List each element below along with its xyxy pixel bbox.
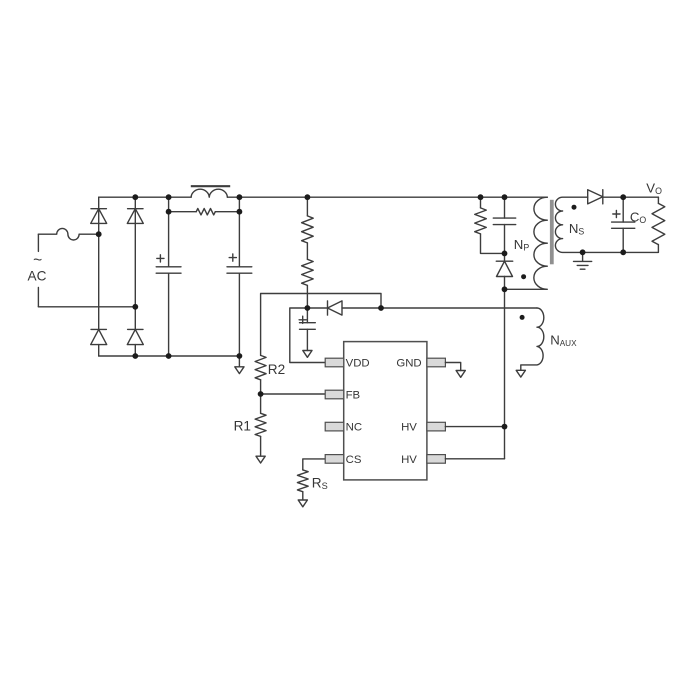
- wire bottom rail: [99, 355, 240, 357]
- wire FB: [261, 393, 326, 395]
- svg-text:FB: FB: [346, 390, 361, 402]
- inductor L1: [191, 186, 230, 197]
- transformer winding NS: [555, 197, 658, 252]
- svg-text:NAUX: NAUX: [550, 333, 577, 349]
- diode D2: [91, 329, 107, 344]
- wire bridge column 1: [98, 197, 100, 356]
- diode Dvdd: [328, 301, 343, 315]
- svg-text:R1: R1: [234, 418, 251, 433]
- wire CS: [303, 459, 325, 470]
- resistor R2: [255, 355, 285, 379]
- svg-text:NC: NC: [346, 422, 362, 434]
- capacitor CO: [612, 197, 647, 252]
- resistor RS: [297, 470, 327, 492]
- AC source: [28, 234, 47, 307]
- transformer winding NP: [505, 197, 548, 289]
- wire top rail: [99, 196, 548, 198]
- ground (Cvdd): [303, 351, 312, 358]
- capacitor C1: [156, 197, 181, 356]
- wire startup tap: [306, 197, 308, 308]
- svg-text:CO: CO: [630, 210, 647, 226]
- ground (RS): [298, 492, 307, 507]
- svg-text:AC: AC: [28, 268, 47, 283]
- transformer winding NAUX: [521, 308, 577, 370]
- resistor Rdamp: [196, 209, 215, 215]
- resistor Rst1: [302, 216, 314, 243]
- wire VDD supply: [290, 308, 325, 363]
- resistor R1: [234, 413, 267, 436]
- svg-text:R2: R2: [268, 362, 285, 377]
- wire diode to aux: [342, 307, 537, 309]
- wire HV2: [445, 458, 504, 460]
- diode Dout: [588, 190, 603, 204]
- resistor Rload: [652, 197, 665, 252]
- resistor Rsn: [475, 197, 505, 253]
- wire GND pin: [445, 363, 460, 371]
- capacitor Cvdd: [299, 308, 315, 351]
- svg-text:HV: HV: [401, 422, 417, 434]
- capacitor C2: [227, 197, 252, 356]
- wire drain: [504, 289, 506, 459]
- svg-text:~: ~: [33, 252, 42, 269]
- diode Dsn: [496, 253, 512, 289]
- ground (R1): [256, 436, 265, 463]
- wire damping rail: [169, 211, 240, 213]
- capacitor Csn: [493, 197, 515, 253]
- wire output: [603, 196, 659, 198]
- svg-text:VDD: VDD: [346, 358, 370, 370]
- ground (NAUX): [516, 370, 525, 377]
- svg-text:RS: RS: [312, 475, 328, 491]
- node NP phase dot: [521, 274, 526, 279]
- resistor Rst2: [302, 259, 314, 285]
- svg-text:HV: HV: [401, 454, 417, 466]
- diode D1: [91, 209, 107, 224]
- diode D3: [127, 209, 143, 224]
- svg-text:NS: NS: [569, 221, 585, 237]
- wire R2 feed: [261, 294, 381, 356]
- ground (IC GND): [456, 371, 465, 378]
- ground (secondary earth): [574, 252, 592, 269]
- fuse F1: [38, 228, 98, 240]
- diode D4: [127, 329, 143, 344]
- svg-text:NP: NP: [514, 237, 530, 253]
- svg-text:VO: VO: [646, 181, 662, 197]
- wire node to diode: [307, 307, 327, 309]
- op-amp U1 (controller IC): [325, 342, 445, 480]
- wire bridge column 2: [134, 197, 136, 356]
- node NS phase dot: [572, 205, 577, 210]
- wire HV1: [445, 426, 504, 428]
- wire R2-R1: [260, 380, 262, 414]
- svg-text:CS: CS: [346, 454, 362, 466]
- wire AC bottom to bridge: [38, 306, 135, 308]
- transformer core: [550, 200, 554, 264]
- node NAUX phase dot: [520, 315, 525, 320]
- ground (primary): [235, 356, 244, 374]
- svg-text:GND: GND: [396, 358, 421, 370]
